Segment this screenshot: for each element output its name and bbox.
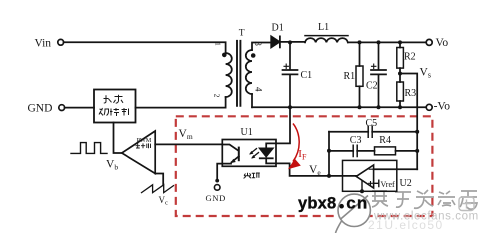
wire box to PWM comparator apex [114, 123, 122, 154]
svg-text:D1: D1 [272, 22, 284, 33]
wire secondary pin3 to diode D1 [252, 43, 271, 51]
plus sign [369, 182, 373, 186]
svg-text:cn: cn [346, 193, 368, 212]
junction C5 right on Vs line [415, 130, 419, 134]
svg-text:C5: C5 [366, 118, 378, 129]
capacitor C3 + resistor R4 branch [329, 150, 375, 152]
op-amp non-inverting input wire to Vref [374, 180, 379, 186]
svg-text:R4: R4 [379, 135, 391, 146]
capacitor C2 [371, 42, 386, 107]
capacitor C5 branch [329, 131, 417, 133]
wire primary pin2 to power-stage box [136, 97, 226, 108]
wire emitter to GND [217, 164, 231, 180]
power stage control box [94, 90, 136, 123]
svg-text:2: 2 [212, 94, 221, 98]
junction R1 bottom on -Vo rail [358, 105, 362, 109]
svg-text:21U.elco50: 21U.elco50 [368, 218, 444, 232]
op-amp U2 module box [343, 160, 397, 191]
GND terminal of opto [215, 179, 219, 183]
sawtooth symbol Vc [142, 185, 174, 193]
resistor R2 [399, 42, 401, 47]
-Vo rail [252, 106, 426, 108]
watermark swoosh circle logo [336, 194, 371, 233]
-Vo terminal [426, 104, 432, 110]
svg-text:Vref: Vref [381, 180, 396, 189]
minus sign [369, 168, 372, 170]
junction R2 top on Vo rail [398, 40, 402, 44]
wire D1 to L1 [280, 41, 305, 43]
transformer core [237, 41, 240, 106]
svg-text:C3: C3 [350, 135, 362, 146]
wire Vin rail to transformer primary [64, 42, 226, 53]
wire Vs tap [400, 74, 417, 170]
watermark hanzi row (电子发烧友) [372, 190, 477, 209]
svg-text:T: T [239, 28, 245, 38]
svg-text:1: 1 [213, 42, 222, 46]
svg-text:Vin: Vin [35, 37, 52, 49]
transformer T primary winding pin1-pin2 [226, 53, 232, 97]
svg-text:C1: C1 [301, 70, 313, 81]
transformer secondary winding pin3-pin4 [246, 50, 252, 94]
wire L1 to Vo [348, 41, 426, 43]
diode D1 [271, 36, 279, 47]
compensation network left vertical [328, 132, 330, 176]
junction R1 top on Vo rail [358, 40, 362, 44]
svg-text:3: 3 [253, 41, 263, 46]
node Vs divider tap [398, 72, 402, 76]
red feedback current arrow IF [288, 124, 301, 170]
junction U2 ground stub [360, 189, 364, 193]
svg-text:Vo: Vo [436, 37, 449, 49]
svg-text:R1: R1 [344, 71, 356, 82]
square wave symbol Vb [71, 143, 107, 154]
U1 LED [260, 148, 273, 156]
Vin input terminal [58, 39, 64, 45]
hanzi 控制器 inside PWM triangle [136, 143, 151, 148]
hanzi 功率 in power box [99, 95, 129, 116]
phase dot secondary [251, 53, 256, 58]
wire LED cathode to Ve and op-amp output [266, 158, 356, 176]
hanzi 级控制 in power box [99, 108, 109, 116]
phase dot primary [222, 53, 227, 58]
wire secondary pin4 to -Vo rail [251, 94, 253, 107]
wire PWM to sawtooth [155, 174, 163, 186]
op-amp inverting input wire [374, 168, 418, 170]
wire GND to power-stage box [65, 107, 94, 109]
svg-text:U2: U2 [400, 178, 412, 189]
svg-text:R3: R3 [405, 88, 417, 99]
inductor L1 [305, 38, 348, 42]
resistor R3 [397, 82, 404, 101]
PWM comparator triangle [122, 131, 155, 174]
watermark seal logo [459, 197, 474, 211]
capacitor C1 [283, 42, 298, 107]
optocoupler U1 box [222, 140, 276, 167]
junction R4 right on Vs line [415, 149, 419, 153]
U1 phototransistor base bar [238, 148, 240, 161]
junction C2 bottom on -Vo rail [377, 105, 381, 109]
junction C3 left branch [327, 149, 331, 153]
svg-text:PWM: PWM [137, 137, 152, 144]
hanzi 光耦 under U1 [244, 173, 260, 179]
U1 phototransistor emitter with arrow [232, 156, 239, 162]
U1 phototransistor collector wire [222, 145, 238, 151]
junction C2 top on Vo rail [377, 40, 381, 44]
resistor R1 [359, 42, 361, 66]
feedback loop dashed boundary box [176, 116, 433, 216]
wire PWM output Vm [155, 143, 222, 145]
svg-text:-Vo: -Vo [434, 100, 451, 112]
svg-text:GND: GND [206, 193, 227, 203]
op-amp ground stub [361, 181, 363, 191]
junction C1 top on Vo rail [288, 40, 292, 44]
light arrows [251, 149, 259, 158]
svg-text:U1: U1 [241, 127, 253, 138]
svg-text:R2: R2 [404, 51, 416, 62]
junction C1 bottom on -Vo rail [288, 105, 292, 109]
svg-text:4: 4 [253, 87, 263, 92]
Vo terminal [426, 39, 432, 45]
svg-text:ybx8: ybx8 [298, 194, 336, 212]
node Ve junction [327, 174, 331, 178]
main black circuit [58, 36, 432, 194]
svg-text:GND: GND [28, 103, 53, 115]
junction R3 bottom on -Vo rail [398, 105, 402, 109]
svg-text:C2: C2 [366, 80, 378, 91]
op-amp U2 triangle [356, 165, 373, 188]
svg-text:L1: L1 [318, 22, 329, 33]
GND input terminal [59, 105, 65, 111]
wire C1/rail junction down to LED anode [266, 107, 290, 148]
